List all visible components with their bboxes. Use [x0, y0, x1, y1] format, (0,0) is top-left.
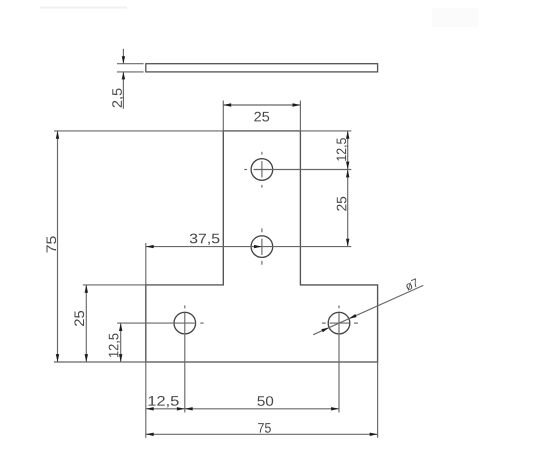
dimension 25 (right) line: [347, 170, 349, 247]
dimension 37,5 line (continues through hole B to right dim): [146, 246, 351, 248]
arrow up (25 right): [346, 170, 349, 178]
wire: top edge line with extensions (75 left ext + stem top + 12,5 right ext): [54, 130, 351, 132]
label 75 left: [47, 236, 57, 252]
arrow left (37,5): [146, 245, 154, 248]
wire: left shoulder extension for 25 dim: [83, 284, 224, 286]
arrow left (25 top): [223, 103, 231, 106]
hole C centerline vertical top dash: [184, 305, 186, 308]
arrow SW (o7): [321, 328, 329, 333]
arrow down (2,5 top): [122, 56, 125, 64]
hole D centerline horizontal left dash: [322, 322, 326, 324]
arrow left (12,5 bottom): [146, 407, 154, 410]
hole A centerline horizontal left dash: [244, 169, 247, 171]
T-plate outline (front view): [146, 131, 378, 362]
dimension 75 (bottom) line: [146, 433, 378, 435]
hole D centerline horizontal main: [330, 322, 350, 324]
arrow up (75 left): [56, 131, 59, 139]
dimension 25 (left base height) line: [85, 285, 87, 362]
side view plate (edge-on rectangle): [146, 64, 378, 72]
dimension 2,5 lower tail: [122, 72, 124, 109]
label diameter 7: [404, 278, 419, 291]
arrow right (25 top): [293, 103, 301, 106]
label 12,5 right: [337, 138, 348, 161]
arrow right (37,5 at hole B): [254, 245, 262, 248]
hole B centerline vertical main: [261, 239, 263, 255]
arrow down (25 right): [346, 239, 349, 247]
arrow down (25 left): [85, 354, 88, 362]
extension line base bottom-right corner down: [377, 362, 379, 438]
hole A centerline vertical top dash: [261, 152, 263, 155]
hole A centerline vertical main: [261, 161, 263, 177]
dimension 25 (top) line: [223, 104, 300, 106]
label 2,5: [112, 89, 123, 108]
dimension 12,5 + 50 (bottom) shared line: [146, 408, 339, 410]
hole A circle (stem upper): [251, 159, 273, 181]
arrow right (75 bottom): [370, 433, 378, 436]
arrow up (25 left): [85, 285, 88, 293]
arrow up (12,5 left): [119, 323, 122, 331]
hole B centerline vertical top dash: [261, 228, 263, 232]
arrow down (12,5 left): [119, 354, 122, 362]
hole D centerline vertical top dash: [338, 306, 340, 309]
arrow right (50): [331, 407, 339, 410]
hole C circle (base left): [174, 312, 196, 334]
label 25 top: [254, 112, 269, 122]
wire: bottom edge line with left extension for 75 dim: [54, 361, 378, 363]
dimension 2,5 upper tail: [122, 49, 124, 64]
hole D centerline vertical main + extension down to bottom dims: [338, 313, 340, 413]
wire: extension line bottom of plate thickness: [117, 71, 144, 73]
hole D circle (base right): [328, 312, 350, 334]
label 12,5 left: [109, 334, 120, 358]
dimension 12,5 (left lower) line: [120, 323, 122, 362]
hole C centerline horizontal main + extension left to 12,5 dim: [117, 322, 196, 324]
dimension 25 (top) extension left: [222, 101, 224, 131]
label 12,5 bottom: [149, 396, 179, 407]
hole A centerline horizontal main + extension to right dimension: [254, 169, 352, 171]
label 50: [257, 396, 273, 406]
hole C centerline vertical main + extension down to bottom dims: [184, 313, 186, 413]
label 37,5: [190, 234, 220, 245]
wire: extension line top of plate thickness: [117, 63, 144, 65]
hole A centerline vertical bottom dash: [261, 185, 263, 188]
arrow up (2,5 bottom): [122, 72, 125, 80]
arrow left (50): [185, 407, 193, 410]
dimension 75 (left) line: [57, 131, 59, 362]
dimension 37,5 extension above left base corner: [145, 243, 147, 285]
arrow right (12,5 bottom): [177, 407, 185, 410]
arrow NE (o7): [349, 314, 357, 319]
label 25 right: [337, 197, 347, 211]
label 75 bottom: [258, 423, 271, 433]
hole B circle (stem lower): [251, 236, 273, 258]
extension line base bottom-left corner down: [145, 362, 147, 438]
arrow down (75 left): [56, 354, 59, 362]
dimension 12,5 (right upper) line: [347, 131, 349, 170]
arrow left (75 bottom): [146, 433, 154, 436]
dimension 25 (top) extension right: [299, 101, 301, 131]
faint watermark line top-left: [40, 7, 127, 9]
arrow down (12,5 right): [346, 162, 349, 170]
leader line o7 through hole D: [313, 285, 423, 334]
faint watermark block top-right: [432, 8, 478, 27]
hole C centerline horizontal right dash: [200, 322, 203, 324]
label 25 left: [74, 311, 84, 326]
hole B centerline vertical bottom dash: [261, 261, 263, 265]
hole D centerline horizontal right dash: [354, 322, 358, 324]
arrow up (12,5 right): [346, 131, 349, 139]
